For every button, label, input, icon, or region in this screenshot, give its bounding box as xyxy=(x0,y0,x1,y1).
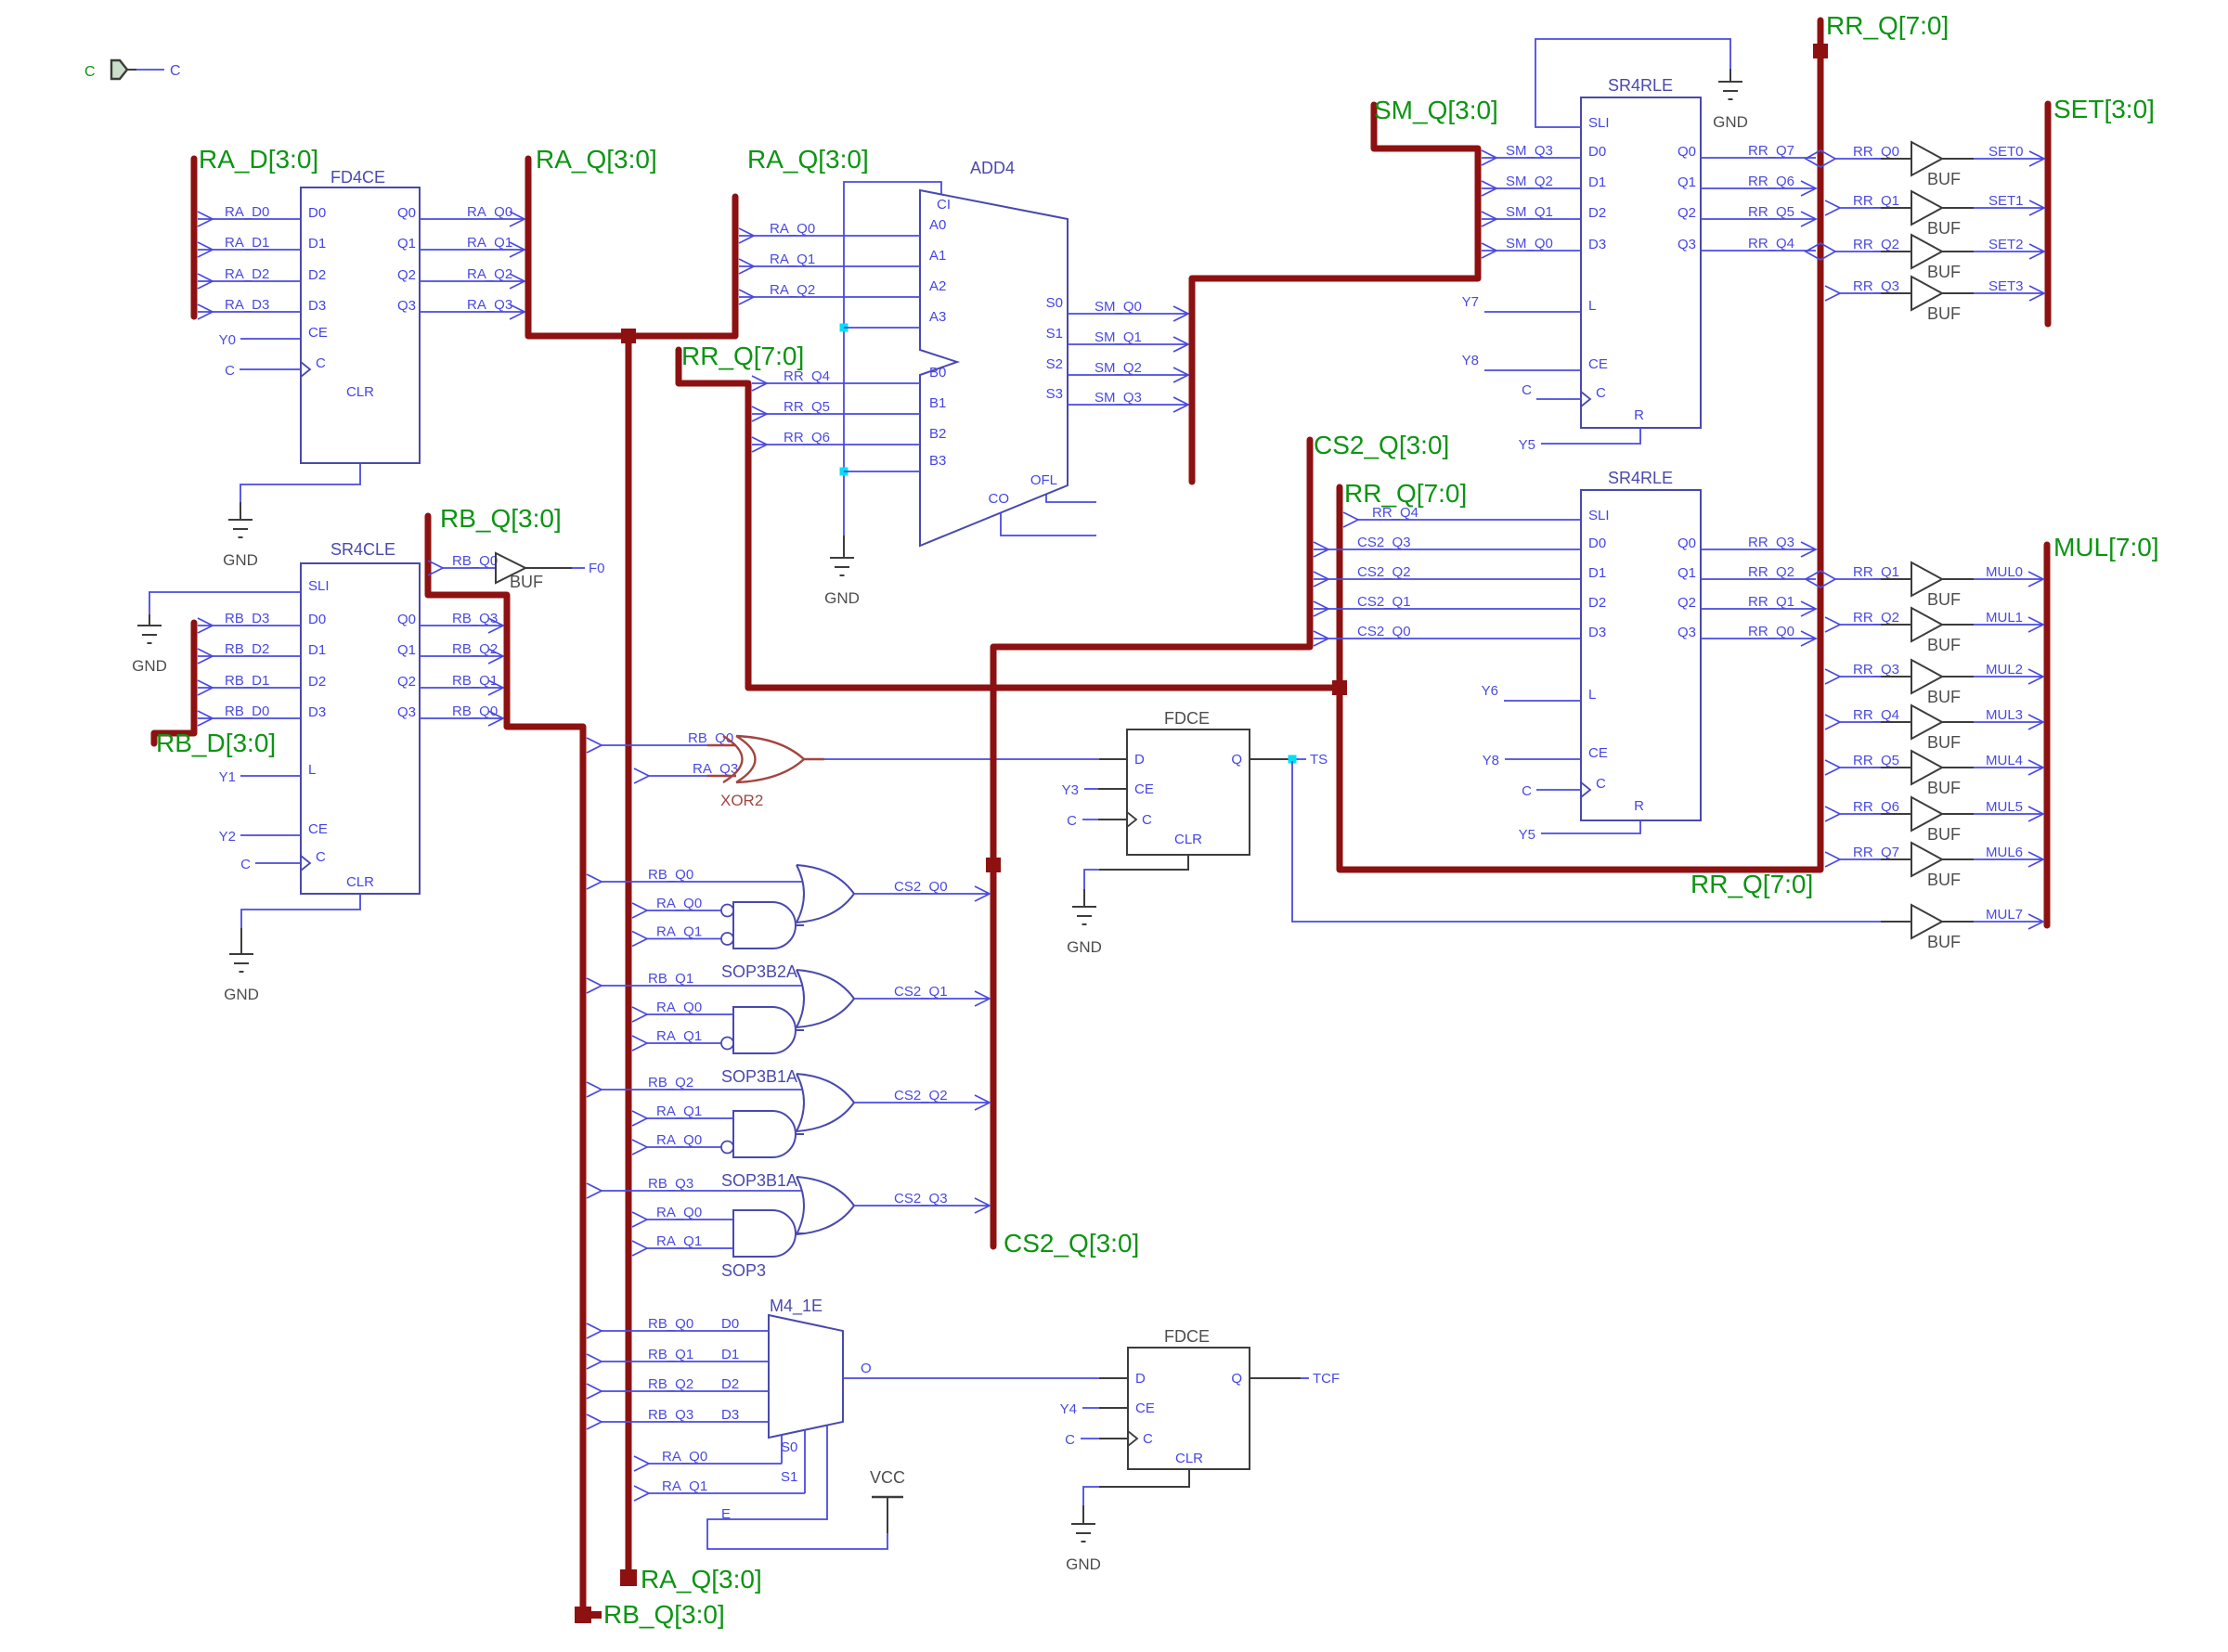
wire RA_Q1 to SOP3B2A xyxy=(632,932,647,947)
svg-text:A3: A3 xyxy=(929,309,946,325)
svg-text:Q1: Q1 xyxy=(1677,565,1696,581)
svg-text:MUL3: MUL3 xyxy=(1986,707,2023,723)
svg-text:Q1: Q1 xyxy=(397,642,416,658)
svg-text:B3: B3 xyxy=(929,453,946,469)
svg-text:SET[3:0]: SET[3:0] xyxy=(2053,95,2155,123)
svg-text:CLR: CLR xyxy=(1174,832,1202,847)
svg-text:SOP3: SOP3 xyxy=(721,1261,766,1280)
svg-text:RR_Q0: RR_Q0 xyxy=(1853,144,1899,160)
svg-text:TS: TS xyxy=(1310,752,1328,768)
svg-text:CS2_Q2: CS2_Q2 xyxy=(894,1088,948,1103)
svg-text:BUF: BUF xyxy=(510,573,543,591)
svg-text:D1: D1 xyxy=(308,642,326,658)
svg-text:A2: A2 xyxy=(929,278,946,294)
svg-text:RR_Q1: RR_Q1 xyxy=(1853,193,1899,209)
wire MUL5 xyxy=(1974,813,2043,815)
svg-text:Q3: Q3 xyxy=(397,298,416,314)
svg-text:RA_D[3:0]: RA_D[3:0] xyxy=(199,145,318,174)
wire RA_Q1 to SOP3B1A-1 xyxy=(632,1036,647,1051)
input port C xyxy=(111,60,127,79)
wire RB_Q1 output xyxy=(420,687,503,689)
wire CS2_Q0 output xyxy=(854,893,990,895)
svg-text:CLR: CLR xyxy=(1175,1451,1203,1466)
svg-text:SM_Q3: SM_Q3 xyxy=(1506,143,1553,159)
wire FD4CE CLR to ground xyxy=(240,463,360,502)
ground GND SR4CLE CLR xyxy=(229,953,253,955)
svg-text:FDCE: FDCE xyxy=(1164,1327,1210,1346)
svg-text:SR4CLE: SR4CLE xyxy=(330,540,395,559)
svg-text:VCC: VCC xyxy=(870,1468,905,1487)
svg-text:RR_Q6: RR_Q6 xyxy=(1748,174,1794,189)
svg-text:Q0: Q0 xyxy=(397,612,416,627)
svg-text:RB_Q1: RB_Q1 xyxy=(648,971,693,987)
bus MUL[7:0] xyxy=(2044,545,2051,925)
wire TS to MUL7 buffer xyxy=(1292,761,1881,922)
svg-text:D3: D3 xyxy=(721,1407,739,1423)
wire SET1 xyxy=(1974,207,2044,209)
svg-text:SM_Q1: SM_Q1 xyxy=(1506,204,1553,220)
svg-text:GND: GND xyxy=(132,657,167,675)
svg-text:BUF: BUF xyxy=(1927,933,1961,951)
clock input triangle FD4CE xyxy=(301,362,310,377)
wire RA_Q1 output xyxy=(420,249,525,251)
svg-text:CE: CE xyxy=(1135,1400,1155,1416)
svg-text:S2: S2 xyxy=(1046,356,1063,372)
svg-text:C: C xyxy=(1596,385,1606,401)
svg-text:RR_Q[7:0]: RR_Q[7:0] xyxy=(1344,479,1467,508)
clock input triangle FDCE2 xyxy=(1128,1431,1137,1446)
svg-text:SLI: SLI xyxy=(308,578,330,594)
gate SOP3B1A-1 AND xyxy=(733,1007,796,1053)
svg-text:SM_Q2: SM_Q2 xyxy=(1095,360,1142,376)
svg-text:RR_Q5: RR_Q5 xyxy=(1748,204,1794,220)
svg-text:Y4: Y4 xyxy=(1060,1401,1077,1417)
svg-text:Y8: Y8 xyxy=(1483,753,1499,768)
svg-text:CE: CE xyxy=(1134,781,1154,797)
svg-text:RB_Q[3:0]: RB_Q[3:0] xyxy=(603,1600,725,1629)
svg-text:Y5: Y5 xyxy=(1519,827,1535,843)
svg-text:TCF: TCF xyxy=(1313,1371,1340,1387)
svg-text:RA_Q1: RA_Q1 xyxy=(662,1478,707,1494)
svg-text:RR_Q[7:0]: RR_Q[7:0] xyxy=(1690,870,1813,898)
svg-text:RA_Q0: RA_Q0 xyxy=(770,221,815,237)
wire SOP3B1A-2 AND to OR xyxy=(796,1133,804,1135)
svg-text:RR_Q4: RR_Q4 xyxy=(784,368,830,384)
buffer BUF SET2 xyxy=(1806,243,1835,260)
wire RB_Q1 to M4_1E D1 xyxy=(587,1354,602,1369)
wire MUL2 xyxy=(1974,676,2043,678)
bus RA_Q[3:0] vertical xyxy=(626,336,632,1578)
wire MUL1 xyxy=(1974,624,2043,626)
wire RA_Q1 to SOP3B1A-2 xyxy=(632,1111,647,1126)
svg-text:Q2: Q2 xyxy=(397,674,416,690)
wire RA_Q3 to XOR2 xyxy=(634,768,649,783)
svg-text:SR4RLE: SR4RLE xyxy=(1608,469,1673,487)
buffer BUF SET1 xyxy=(1825,200,1840,215)
wire SOP3B2A AND to OR xyxy=(796,924,804,926)
svg-text:RR_Q4: RR_Q4 xyxy=(1748,236,1794,252)
wire CS2_Q1 output xyxy=(854,998,990,1000)
svg-text:C: C xyxy=(1065,1432,1075,1448)
wire RR_Q4 to SLI xyxy=(1343,512,1358,527)
wire SM_Q3 to SR4RLE1 xyxy=(1482,157,1581,159)
svg-text:F0: F0 xyxy=(589,561,605,576)
wire MUL0 xyxy=(1974,578,2043,580)
svg-text:Y8: Y8 xyxy=(1462,353,1479,368)
svg-text:RB_Q2: RB_Q2 xyxy=(648,1376,693,1392)
wire RB_Q2 to M4_1E D2 xyxy=(587,1384,602,1399)
svg-text:A1: A1 xyxy=(929,248,946,264)
wire SET2 xyxy=(1974,251,2044,252)
svg-text:RB_Q1: RB_Q1 xyxy=(452,673,498,689)
wire MUL6 xyxy=(1974,858,2043,860)
wire RB_Q0 output xyxy=(420,717,503,719)
svg-text:RR_Q5: RR_Q5 xyxy=(784,399,830,415)
svg-text:CS2_Q[3:0]: CS2_Q[3:0] xyxy=(1004,1229,1139,1258)
svg-text:BUF: BUF xyxy=(1927,871,1961,889)
svg-text:Q: Q xyxy=(1231,1371,1242,1387)
buffer BUF MUL3 xyxy=(1825,715,1840,729)
svg-text:BUF: BUF xyxy=(1927,590,1961,609)
svg-text:Y0: Y0 xyxy=(219,332,236,348)
svg-text:RR_Q1: RR_Q1 xyxy=(1853,564,1899,580)
power VCC xyxy=(887,1498,888,1533)
wire CS2_Q2 output xyxy=(854,1102,990,1103)
wire RA_Q0 to M4_1E S0 xyxy=(634,1456,649,1471)
svg-text:CE: CE xyxy=(308,325,328,341)
svg-text:RB_Q3: RB_Q3 xyxy=(648,1407,693,1423)
buffer BUF SET0 xyxy=(1806,150,1835,167)
svg-text:RA_Q0: RA_Q0 xyxy=(656,896,702,911)
wire SM_Q0 output xyxy=(1068,313,1188,315)
gate XOR2 xyxy=(723,736,743,782)
buffer BUF MUL2 xyxy=(1825,669,1840,684)
wire MUL3 xyxy=(1974,721,2043,723)
svg-text:RA_Q1: RA_Q1 xyxy=(770,252,815,267)
buffer BUF SET3 xyxy=(1825,286,1840,301)
svg-text:RR_Q6: RR_Q6 xyxy=(784,430,830,445)
svg-text:RR_Q4: RR_Q4 xyxy=(1853,707,1899,723)
svg-text:Q0: Q0 xyxy=(1677,536,1696,551)
svg-text:S0: S0 xyxy=(1046,295,1063,311)
wire RB_Q1 to SOP3B1A-1 xyxy=(587,978,602,993)
wire Q to TS xyxy=(1250,758,1289,760)
svg-text:RB_D[3:0]: RB_D[3:0] xyxy=(156,729,276,757)
svg-text:C: C xyxy=(1596,776,1606,792)
gate SOP3B1A-1 OR xyxy=(797,970,804,1027)
wire A3 xyxy=(844,327,920,329)
svg-text:C: C xyxy=(1522,783,1532,799)
svg-text:GND: GND xyxy=(224,986,259,1003)
svg-text:Q1: Q1 xyxy=(397,236,416,252)
svg-text:B0: B0 xyxy=(929,365,946,381)
ground GND FD4CE xyxy=(228,519,253,521)
bus end RB_Q xyxy=(575,1607,591,1623)
svg-text:GND: GND xyxy=(824,589,860,607)
svg-text:A0: A0 xyxy=(929,217,946,233)
svg-text:RA_D0: RA_D0 xyxy=(225,204,269,220)
svg-text:RA_D2: RA_D2 xyxy=(225,266,269,282)
svg-text:CLR: CLR xyxy=(346,874,374,890)
svg-text:CO: CO xyxy=(989,491,1010,507)
buffer BUF MUL7 xyxy=(1881,921,1911,923)
wire RR_Q5 output xyxy=(1701,218,1816,220)
wire SM_Q1 output xyxy=(1068,343,1188,345)
svg-text:D0: D0 xyxy=(721,1316,739,1332)
svg-text:CS2_Q0: CS2_Q0 xyxy=(894,879,948,895)
buffer BUF MUL6 xyxy=(1825,852,1840,867)
ground GND FDCE1 xyxy=(1072,906,1096,908)
svg-text:BUF: BUF xyxy=(1927,263,1961,281)
wire RB_Q2 output xyxy=(420,655,503,657)
wire port C stub xyxy=(127,69,136,71)
svg-text:SM_Q0: SM_Q0 xyxy=(1095,299,1142,315)
svg-text:RB_Q1: RB_Q1 xyxy=(648,1347,693,1362)
svg-text:RA_Q2: RA_Q2 xyxy=(467,266,512,282)
wire RB_D2 xyxy=(198,655,301,657)
wire SM_Q1 to SR4RLE1 xyxy=(1482,218,1581,220)
svg-text:L: L xyxy=(1588,687,1596,703)
svg-text:D2: D2 xyxy=(308,267,326,283)
wire SM_Q2 to SR4RLE1 xyxy=(1482,187,1581,189)
svg-text:RB_Q3: RB_Q3 xyxy=(648,1176,693,1192)
svg-text:RB_D1: RB_D1 xyxy=(225,673,269,689)
junction RR_Q top xyxy=(1813,44,1828,58)
svg-text:RR_Q4: RR_Q4 xyxy=(1372,505,1418,521)
wire MUL7 xyxy=(1974,921,2043,923)
wire Q to TCF xyxy=(1250,1377,1301,1379)
bus CS2_Q[3:0] xyxy=(993,440,1310,1246)
svg-text:RB_Q0: RB_Q0 xyxy=(648,867,693,883)
svg-text:SM_Q[3:0]: SM_Q[3:0] xyxy=(1374,96,1498,124)
svg-text:C: C xyxy=(170,63,181,79)
bubble RA_Q0 SOP3B1A-2 xyxy=(721,1142,733,1154)
svg-text:S0: S0 xyxy=(781,1439,797,1455)
svg-text:RA_Q[3:0]: RA_Q[3:0] xyxy=(641,1565,762,1594)
svg-text:C: C xyxy=(1143,1431,1153,1447)
svg-text:L: L xyxy=(1588,298,1596,314)
ground GND SR4CLE SLI xyxy=(137,625,162,626)
svg-text:M4_1E: M4_1E xyxy=(770,1297,823,1316)
flip-flop FD4CE U1 xyxy=(301,187,420,463)
wire M4_1E output O xyxy=(843,1377,1099,1379)
svg-text:D2: D2 xyxy=(1588,595,1606,611)
svg-text:CE: CE xyxy=(1588,745,1608,761)
junction RR_Q middle xyxy=(1332,680,1347,695)
svg-text:L: L xyxy=(308,762,316,778)
wire FDCE1 CLR to ground xyxy=(1099,855,1188,870)
wire RB_Q2 to SOP3B1A-2 xyxy=(587,1082,602,1097)
buffer BUF F0 xyxy=(496,553,525,583)
svg-text:R: R xyxy=(1634,407,1644,423)
wire RB_D1 xyxy=(198,687,301,689)
svg-text:MUL7: MUL7 xyxy=(1986,907,2023,923)
junction CS2 bus xyxy=(986,858,1001,872)
wire MUL4 xyxy=(1974,767,2043,768)
svg-text:C: C xyxy=(1067,813,1077,829)
svg-text:SM_Q3: SM_Q3 xyxy=(1095,390,1142,406)
wire RB_Q3 to M4_1E D3 xyxy=(587,1414,602,1429)
svg-text:Y5: Y5 xyxy=(1519,437,1535,453)
svg-text:ADD4: ADD4 xyxy=(970,159,1015,177)
svg-text:Q0: Q0 xyxy=(1677,144,1696,160)
buffer BUF MUL4 xyxy=(1825,760,1840,775)
adder ADD4 U3 xyxy=(920,190,1068,546)
junction RA_Q bus xyxy=(621,329,636,343)
ground GND SR4RLE1 xyxy=(1718,81,1742,83)
svg-text:RB_Q2: RB_Q2 xyxy=(648,1075,693,1091)
svg-text:MUL5: MUL5 xyxy=(1986,799,2023,815)
svg-text:CS2_Q0: CS2_Q0 xyxy=(1357,624,1411,639)
bus SET[3:0] xyxy=(2045,104,2052,324)
wire RA_Q0 to SOP3B2A xyxy=(632,903,647,918)
svg-text:SET3: SET3 xyxy=(1988,278,2024,294)
wire CS2_Q0 to SR4RLE2 xyxy=(1314,638,1581,639)
svg-text:D1: D1 xyxy=(1588,174,1606,190)
wire CS2_Q1 to SR4RLE2 xyxy=(1314,608,1581,610)
wire RB_Q0 to XOR2 xyxy=(587,738,602,753)
svg-text:D2: D2 xyxy=(308,674,326,690)
svg-text:SOP3B1A: SOP3B1A xyxy=(721,1067,797,1086)
bus RR_Q[7:0] middle xyxy=(679,350,1340,688)
svg-text:RR_Q7: RR_Q7 xyxy=(1748,143,1794,159)
bubble RA_Q0 SOP3B2A xyxy=(721,905,733,917)
wire RA_Q0 output xyxy=(420,218,525,220)
svg-text:SM_Q2: SM_Q2 xyxy=(1506,174,1553,189)
svg-text:RB_D2: RB_D2 xyxy=(225,641,269,657)
wire SR4CLE CLR to ground xyxy=(241,894,360,928)
svg-text:D3: D3 xyxy=(308,704,326,720)
wire RA_Q3 output xyxy=(420,311,525,313)
svg-text:RA_Q1: RA_Q1 xyxy=(656,1028,702,1044)
svg-text:RB_D0: RB_D0 xyxy=(225,703,269,719)
svg-text:RR_Q1: RR_Q1 xyxy=(1748,594,1794,610)
wire RA_D3 xyxy=(198,311,301,313)
svg-text:D3: D3 xyxy=(1588,625,1606,640)
svg-text:E: E xyxy=(721,1506,731,1522)
gate SOP3B1A-2 OR xyxy=(797,1074,804,1131)
wire SLI to ground xyxy=(149,592,301,614)
wire FDCE2 CLR to ground xyxy=(1099,1469,1189,1487)
svg-text:SOP3B2A: SOP3B2A xyxy=(721,962,797,981)
svg-text:Q3: Q3 xyxy=(1677,625,1696,640)
svg-text:CS2_Q2: CS2_Q2 xyxy=(1357,564,1411,580)
buffer BUF MUL0 xyxy=(1806,571,1835,587)
svg-text:SM_Q0: SM_Q0 xyxy=(1506,236,1553,252)
svg-text:Y7: Y7 xyxy=(1462,294,1479,310)
svg-text:SM_Q1: SM_Q1 xyxy=(1095,329,1142,345)
svg-text:CS2_Q3: CS2_Q3 xyxy=(1357,535,1411,550)
svg-text:S3: S3 xyxy=(1046,386,1063,402)
svg-text:BUF: BUF xyxy=(1927,636,1961,654)
svg-text:RR_Q5: RR_Q5 xyxy=(1853,753,1899,768)
svg-text:MUL2: MUL2 xyxy=(1986,662,2023,678)
svg-text:FD4CE: FD4CE xyxy=(330,168,385,187)
svg-text:CS2_Q1: CS2_Q1 xyxy=(894,984,948,1000)
svg-text:D1: D1 xyxy=(1588,565,1606,581)
clock input triangle SR4CLE xyxy=(301,856,310,871)
flip-flop FDCE U8 xyxy=(1128,1348,1250,1469)
svg-text:D0: D0 xyxy=(308,205,326,221)
svg-text:BUF: BUF xyxy=(1927,304,1961,323)
wire SOP3 AND to OR xyxy=(796,1233,804,1234)
svg-text:RA_Q0: RA_Q0 xyxy=(467,204,512,220)
bubble RA_Q1 SOP3B1A-1 xyxy=(721,1038,733,1050)
svg-text:C: C xyxy=(225,363,235,379)
bubble RA_Q1 SOP3B2A xyxy=(721,933,733,945)
wire SLI ground loop SR4RLE1 xyxy=(1535,39,1730,127)
svg-text:BUF: BUF xyxy=(1927,688,1961,706)
svg-text:C: C xyxy=(84,64,96,80)
svg-text:SLI: SLI xyxy=(1588,508,1610,523)
svg-text:D3: D3 xyxy=(1588,237,1606,252)
svg-text:BUF: BUF xyxy=(1927,219,1961,238)
gate SOP3B1A-2 AND xyxy=(733,1111,796,1157)
svg-text:Y1: Y1 xyxy=(219,769,236,785)
bus SM_Q[3:0] xyxy=(1192,105,1478,482)
gate SOP3B2A OR xyxy=(797,865,804,923)
wire RR_Q5 to ADD4 xyxy=(752,413,920,415)
wire Y5 to R SR4RLE2 xyxy=(1541,820,1640,833)
wire RA_Q1 to M4_1E S1 xyxy=(634,1486,649,1501)
wire RA_Q1 to SOP3 xyxy=(632,1241,647,1256)
svg-text:RR_Q2: RR_Q2 xyxy=(1853,237,1899,252)
wire RA_D0 xyxy=(198,218,301,220)
clock input triangle SR4RLE1 xyxy=(1581,392,1590,407)
junction TS xyxy=(1289,755,1297,764)
svg-text:OFL: OFL xyxy=(1030,472,1057,488)
svg-text:RB_Q3: RB_Q3 xyxy=(452,611,498,626)
wire E to VCC xyxy=(707,1426,887,1549)
svg-text:RA_Q3: RA_Q3 xyxy=(693,761,738,777)
svg-text:CS2_Q3: CS2_Q3 xyxy=(894,1191,948,1207)
svg-text:SOP3B1A: SOP3B1A xyxy=(721,1171,797,1190)
wire RA_Q0 to SOP3B1A-1 xyxy=(632,1007,647,1022)
svg-text:RR_Q2: RR_Q2 xyxy=(1853,610,1899,626)
wire RR_Q6 output xyxy=(1701,187,1816,189)
wire RA_Q2 to ADD4 xyxy=(739,296,920,298)
svg-text:O: O xyxy=(861,1361,872,1376)
bus RB_Q[3:0] xyxy=(428,516,583,1615)
svg-text:Q1: Q1 xyxy=(1677,174,1696,190)
wire OFL stub xyxy=(1046,494,1096,502)
bus RB_D[3:0] xyxy=(154,623,194,743)
svg-text:RA_Q0: RA_Q0 xyxy=(656,1132,702,1148)
svg-text:S1: S1 xyxy=(781,1469,797,1485)
svg-text:RB_Q0: RB_Q0 xyxy=(648,1316,693,1332)
svg-text:MUL0: MUL0 xyxy=(1986,564,2023,580)
svg-text:RA_Q2: RA_Q2 xyxy=(770,282,815,298)
wire RA_Q0 to SOP3 xyxy=(632,1212,647,1227)
svg-text:RA_D3: RA_D3 xyxy=(225,297,269,313)
svg-text:SR4RLE: SR4RLE xyxy=(1608,76,1673,95)
wire RA_Q0 to ADD4 xyxy=(739,235,920,237)
wire RA_D2 xyxy=(198,280,301,282)
wire SM_Q2 output xyxy=(1068,374,1188,376)
svg-text:RB_D3: RB_D3 xyxy=(225,611,269,626)
svg-text:C: C xyxy=(1522,382,1532,398)
svg-text:D1: D1 xyxy=(721,1347,739,1362)
svg-text:RA_Q1: RA_Q1 xyxy=(656,924,702,940)
svg-text:D0: D0 xyxy=(308,612,326,627)
wire XOR2 output to FDCE D xyxy=(824,758,1099,760)
junction A3 xyxy=(840,324,848,332)
svg-text:D: D xyxy=(1135,1371,1146,1387)
wire RA_Q2 output xyxy=(420,280,525,282)
svg-text:CS2_Q1: CS2_Q1 xyxy=(1357,594,1411,610)
gate SOP3 AND xyxy=(733,1210,796,1257)
wire RB_Q3 output xyxy=(420,625,503,626)
